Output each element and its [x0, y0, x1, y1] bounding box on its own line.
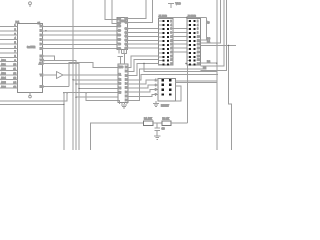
svg-text:1D: 1D	[118, 18, 121, 21]
IC U1 main box	[18, 24, 43, 93]
J3 ground	[153, 101, 159, 106]
U1 ground at bottom	[29, 92, 32, 98]
junction on first bus wire	[45, 30, 46, 31]
U2 to connector J1 wires	[128, 29, 159, 48]
J2 pin stubs	[187, 21, 189, 64]
connector J2 box	[187, 19, 200, 65]
connector J1 box	[158, 19, 173, 66]
svg-text:R1 10K: R1 10K	[144, 118, 152, 121]
J1 to J2 wires	[172, 29, 187, 52]
IC U2 box	[117, 17, 127, 49]
junction on J2 bottom row	[185, 63, 186, 64]
svg-text:J2 HDR: J2 HDR	[188, 15, 197, 18]
U1 left net labels	[1, 59, 6, 89]
svg-text:4D: 4D	[118, 30, 121, 33]
svg-text:AD3: AD3	[1, 73, 6, 76]
right bus verticals	[201, 0, 232, 150]
svg-text:AD1: AD1	[1, 64, 6, 67]
J1 pin stubs	[158, 21, 162, 64]
vertical net x187.5 from J2 to reset wire	[187, 64, 189, 124]
top rail over connectors	[159, 17, 207, 19]
U1 to U2 bus wires	[43, 26, 118, 48]
U3 bottom stubs and ground	[120, 103, 128, 109]
svg-text:AD0: AD0	[1, 59, 6, 62]
right horizontal nets	[201, 45, 237, 64]
svg-text:8D: 8D	[118, 47, 121, 50]
J2 pin numbers	[197, 20, 200, 66]
svg-text:J1 HDR: J1 HDR	[159, 15, 168, 18]
J2 pin squares col1	[189, 20, 191, 65]
U2 top-left wires from top	[105, 0, 117, 23]
J2 pin squares col2	[194, 20, 196, 65]
svg-text:AD4: AD4	[1, 77, 6, 80]
svg-text:5D: 5D	[118, 34, 121, 37]
power VCC symbol top-left	[29, 2, 32, 7]
U2 bottom stubs	[119, 49, 127, 53]
svg-text:3D: 3D	[118, 25, 121, 28]
reset RC circuit	[91, 121, 188, 150]
wire to U3 bottom pin	[86, 93, 119, 103]
U1 left pin numbers	[13, 24, 16, 89]
svg-text:AD6: AD6	[1, 86, 6, 89]
U1 internal pin names	[39, 25, 44, 88]
right net labels	[203, 22, 211, 70]
J3 right wires	[176, 81, 217, 101]
U3 top power stubs	[118, 53, 128, 64]
svg-text:8xC552: 8xC552	[27, 46, 36, 49]
svg-text:AD5: AD5	[1, 81, 6, 84]
svg-text:VCC: VCC	[176, 3, 181, 6]
U1 right lower pin wires	[43, 56, 80, 150]
U1 left pin wires	[0, 26, 18, 88]
svg-text:RESET: RESET	[161, 105, 170, 108]
connector J3 box	[158, 79, 176, 102]
svg-text:AD2: AD2	[1, 68, 6, 71]
J1 pin squares col1	[163, 20, 165, 65]
long vertical bus line x73	[72, 0, 74, 150]
J3 pin squares	[161, 79, 171, 96]
U2 top-right wires	[128, 0, 153, 22]
wires into U3 left pins	[64, 79, 118, 98]
J1 pin squares col2	[167, 20, 169, 65]
svg-text:R2 1K: R2 1K	[162, 118, 169, 121]
capacitor C1	[154, 123, 165, 136]
U2 internal pin names	[118, 17, 129, 50]
buffer gate triangle	[43, 72, 118, 79]
power VCC symbol top-right	[168, 3, 181, 9]
U3 internal pin names	[118, 66, 128, 102]
ground below C1	[154, 136, 160, 139]
J3 pin numbers left	[155, 79, 157, 96]
svg-text:6D: 6D	[118, 39, 121, 42]
left long wire with corner up to U3 row	[0, 103, 64, 105]
IC U3 box	[118, 64, 128, 102]
svg-text:7D: 7D	[118, 43, 121, 46]
staircase wire from U1 pin to U3	[43, 63, 118, 87]
U3 right fan wires	[128, 56, 218, 101]
J1 pin numbers	[170, 20, 173, 66]
